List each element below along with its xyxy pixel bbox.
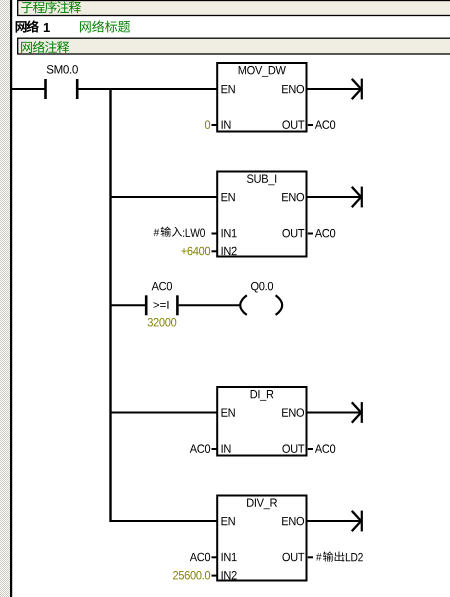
value 25600.0 [173,571,210,579]
arrow rung1 open end [308,88,361,90]
node AC0 out1 [315,120,335,128]
label >=I [153,301,168,309]
wire SUB_I IN1 stub [212,233,217,235]
node AC0 out4 [315,444,335,452]
contact SM0.0 [44,79,47,99]
wire rung1 from rail to contact [12,88,45,90]
pin EN [222,85,235,93]
wire rung4 branch to DI_R [110,412,218,414]
wire branch vertical [109,88,111,522]
value 0 [205,120,210,128]
value AC0 in5 [190,553,210,561]
wire rung2 branch to SUB_I [110,196,218,198]
box MOV_DW [217,63,306,132]
pin OUT [282,444,304,452]
pin ENO [282,193,304,201]
wire rung3 contact to coil [179,304,241,306]
label 网络标题 [80,21,91,32]
value 32000 [148,318,177,326]
label 子程序注释 [21,2,33,13]
pin ENO [282,517,304,525]
label 网络注释 [21,42,32,53]
pin OUT [282,553,304,561]
wire DIV_R IN2 stub [212,575,217,577]
arrow rung5 open end [308,520,361,522]
left power rail [10,0,12,597]
label DIV_R [247,499,277,510]
pin EN [222,193,235,201]
pin IN2 [222,247,237,255]
arrow rung4 open end [308,412,361,414]
wire MOV_DW IN stub [212,124,217,126]
wire DI_R IN stub [212,448,217,450]
label DI_R [251,390,274,401]
label SUB_I [247,174,276,185]
pin ENO [282,408,304,416]
label Q0.0 [251,282,273,293]
wire DIV_R OUT stub [308,556,313,558]
wire rung1 contact to block MOV_DW [79,88,218,90]
subroutine comment box [18,1,450,16]
pin IN [222,445,231,453]
network comment box [18,38,450,54]
arrow rung2 open end [308,196,361,198]
box SUB_I [217,172,306,257]
wire DIV_R IN1 stub [212,556,217,558]
coil Q0.0 [240,295,247,315]
wire SUB_I OUT stub [308,233,313,235]
pin OUT [282,120,304,128]
compare contact AC0 >=I 32000 [145,295,148,315]
pin IN1 [222,553,237,561]
node #输出:LD2 [316,553,322,561]
pin OUT [282,229,304,237]
wire rung5 branch to DIV_R [110,520,218,522]
box DI_R [217,387,306,456]
pin IN1 [222,229,237,237]
label MOV_DW [239,66,286,77]
pin EN [222,517,235,525]
pin IN [222,121,231,129]
pin IN2 [222,571,237,579]
wire rung3 branch to compare contact [110,304,147,306]
value #输入:LW0 [154,229,160,237]
wire DI_R OUT stub [308,448,313,450]
left margin checkerboard [0,0,10,597]
box DIV_R [217,496,306,581]
label 网络 1 [16,21,27,32]
value +6400 [181,247,210,255]
wire SUB_I IN2 stub [212,250,217,252]
label SM0.0 [47,65,78,73]
node AC0 out2 [315,229,335,237]
value AC0 in4 [190,444,210,452]
pin ENO [282,85,304,93]
label AC0 compare [152,282,172,290]
pin EN [222,408,235,416]
wire MOV_DW OUT stub [308,124,313,126]
